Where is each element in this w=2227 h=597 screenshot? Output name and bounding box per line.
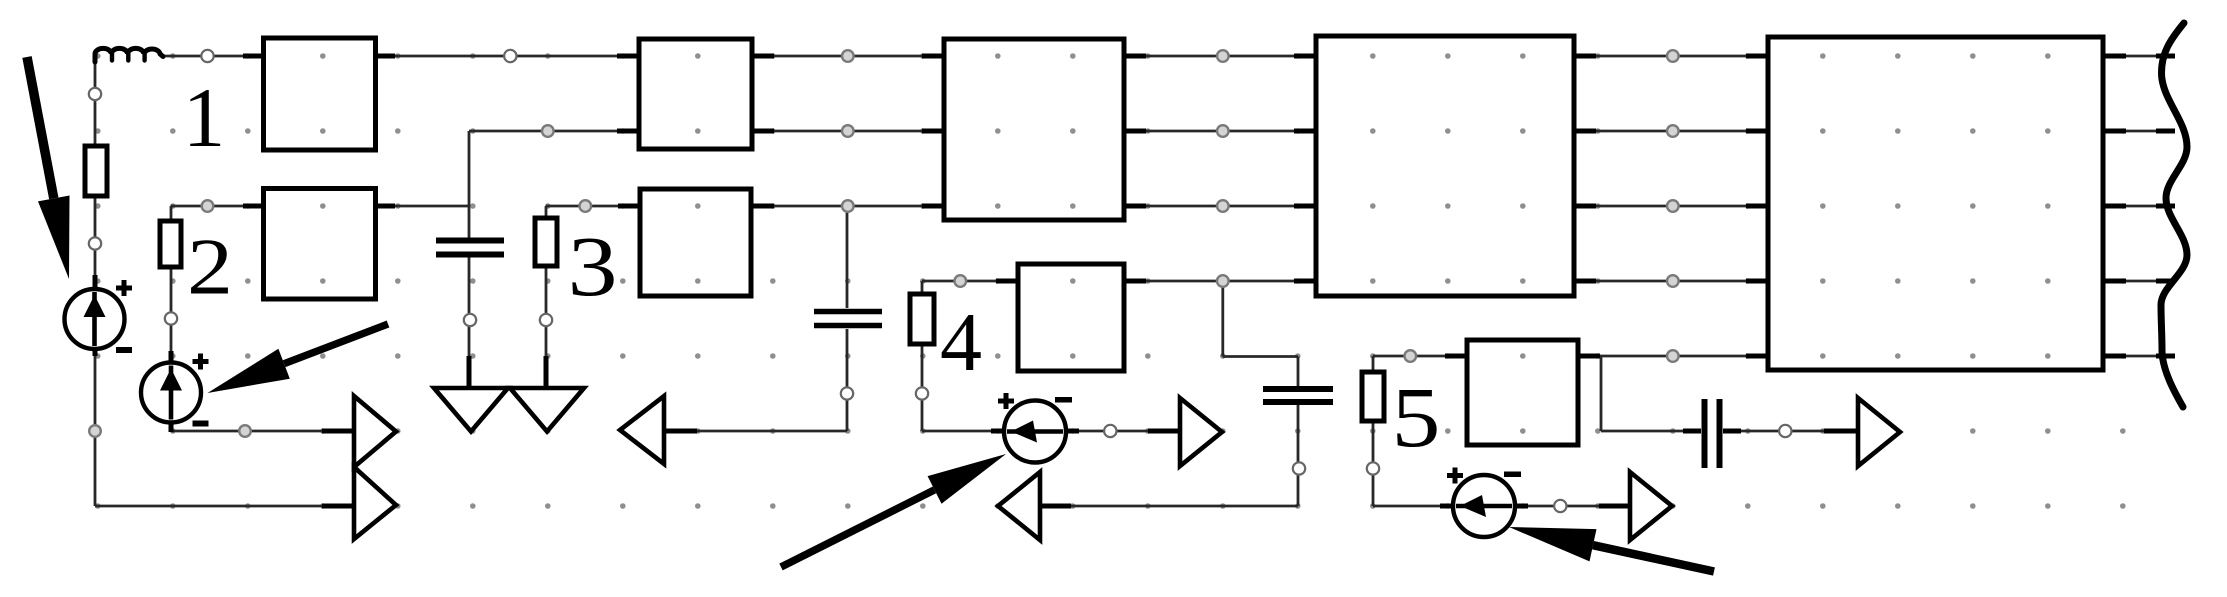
wire	[171, 205, 264, 208]
node (junction)	[89, 425, 101, 437]
wire	[94, 56, 97, 290]
wire	[922, 430, 1180, 433]
svg-text:4: 4	[940, 296, 982, 389]
block U1	[264, 38, 376, 150]
buffer A7 (output)	[1858, 398, 1900, 466]
wire	[664, 430, 847, 433]
wire	[1601, 430, 1701, 433]
wire	[469, 130, 640, 133]
wire	[545, 206, 548, 220]
node (junction)	[1217, 200, 1229, 212]
wire	[1573, 280, 1769, 283]
block U2	[264, 189, 376, 300]
wire	[2103, 55, 2175, 58]
torn-edge continuation squiggle	[2161, 23, 2187, 407]
wire	[1297, 404, 1300, 506]
block U6	[1018, 264, 1124, 371]
block U8	[1467, 340, 1578, 445]
node	[464, 314, 476, 326]
buffer A5 (output, left)	[998, 472, 1040, 540]
resistor R5	[1362, 372, 1384, 421]
wire	[2103, 130, 2175, 133]
wire	[170, 418, 173, 431]
wire	[375, 205, 469, 208]
node (junction)	[842, 200, 854, 212]
wire	[1372, 419, 1375, 506]
buffer A6 (output)	[1630, 472, 1672, 540]
wire	[1723, 430, 1858, 433]
wire	[95, 505, 354, 508]
wire	[546, 205, 641, 208]
resistor R2	[160, 221, 181, 267]
wire	[1040, 505, 1298, 508]
node (junction)	[1217, 50, 1229, 62]
node	[916, 387, 928, 399]
wire	[846, 206, 849, 308]
node (junction)	[239, 425, 251, 437]
resistor R4	[910, 294, 934, 344]
wire	[171, 430, 354, 433]
wire	[375, 55, 640, 58]
annotation arrow 2	[284, 324, 388, 364]
node (junction)	[842, 50, 854, 62]
node (junction)	[580, 200, 592, 212]
wire	[1573, 205, 1769, 208]
wire	[1577, 355, 1769, 358]
wire	[846, 329, 849, 431]
node (junction)	[202, 200, 214, 212]
block U3	[639, 39, 752, 149]
node	[1104, 425, 1116, 437]
node	[540, 314, 552, 326]
source I3	[998, 393, 1072, 463]
wire	[1373, 355, 1468, 358]
wire	[1223, 355, 1298, 358]
buffer A1 (output)	[354, 396, 396, 467]
node	[89, 237, 101, 249]
wire	[163, 55, 264, 58]
buffer A2 (output)	[354, 467, 396, 539]
node	[1293, 462, 1305, 474]
node (junction)	[1667, 350, 1679, 362]
wire	[1123, 205, 1317, 208]
wire	[1123, 280, 1317, 283]
wire	[170, 206, 173, 224]
ground	[510, 388, 584, 432]
node (junction)	[955, 275, 967, 287]
wire	[1373, 505, 1630, 508]
wire	[468, 131, 471, 238]
wire	[1573, 130, 1769, 133]
wire	[1600, 356, 1603, 431]
ground	[434, 388, 508, 432]
wire	[1123, 55, 1317, 58]
buffer A3 (output, left)	[620, 396, 664, 464]
source I4	[1447, 468, 1521, 538]
wire	[2103, 280, 2175, 283]
node	[1779, 425, 1791, 437]
node (junction)	[1667, 275, 1679, 287]
wire	[921, 342, 924, 431]
capacitor C3	[1263, 389, 1333, 402]
node	[841, 387, 853, 399]
wire	[170, 264, 173, 366]
node (junction)	[1667, 200, 1679, 212]
node	[504, 50, 516, 62]
capacitor C2	[814, 312, 882, 326]
capacitor C1	[436, 241, 504, 255]
node (junction)	[1667, 50, 1679, 62]
wire	[545, 264, 548, 387]
wire	[1123, 130, 1317, 133]
wire	[2103, 205, 2175, 208]
wire	[921, 281, 924, 296]
wire	[1372, 356, 1375, 374]
node (junction)	[1217, 125, 1229, 137]
node (junction)	[542, 125, 554, 137]
wire	[94, 341, 97, 506]
resistor R1	[85, 146, 107, 196]
annotation arrow 3	[781, 490, 935, 567]
wire	[751, 130, 945, 133]
wire	[2103, 355, 2175, 358]
capacitor C4	[1705, 399, 1720, 468]
svg-text:3: 3	[568, 218, 618, 314]
wire	[1573, 55, 1769, 58]
wire port stubs	[95, 56, 2175, 506]
wire	[922, 280, 1019, 283]
block U9	[1768, 37, 2103, 370]
wire	[1221, 281, 1224, 357]
node	[165, 312, 177, 324]
node	[1367, 462, 1379, 474]
node (junction)	[1405, 350, 1417, 362]
resistor R3	[535, 218, 557, 266]
svg-text:2: 2	[187, 224, 233, 312]
buffer A4 (output)	[1180, 398, 1222, 466]
node	[201, 50, 213, 62]
annotation arrow 4	[1593, 545, 1714, 571]
node (junction)	[842, 125, 854, 137]
annotation arrow 1	[27, 57, 54, 198]
wire	[1297, 357, 1300, 387]
source I2	[141, 354, 209, 427]
node (junction)	[1217, 275, 1229, 287]
wire	[751, 205, 945, 208]
wire	[751, 55, 945, 58]
block U7	[1316, 36, 1574, 296]
block U5	[944, 39, 1124, 220]
inductor L1	[95, 48, 163, 62]
node (junction)	[1667, 125, 1679, 137]
node	[1554, 500, 1566, 512]
block U4	[640, 189, 751, 296]
node	[89, 88, 101, 100]
wire	[468, 257, 471, 387]
svg-text:1: 1	[183, 71, 226, 165]
source I1	[65, 280, 133, 353]
svg-text:5: 5	[1392, 369, 1441, 465]
